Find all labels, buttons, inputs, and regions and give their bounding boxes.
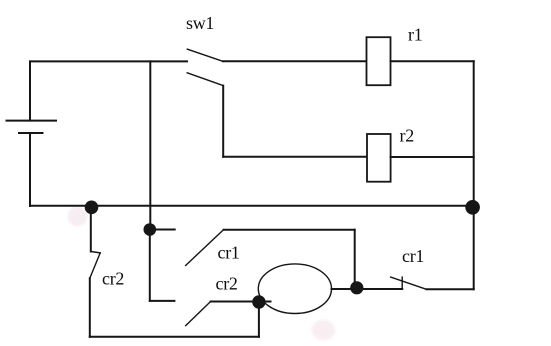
contact cr2 left tick	[91, 252, 100, 253]
switch sw1 blade 1	[187, 49, 223, 61]
wire bottom left row	[90, 336, 259, 338]
switch sw1 blade 2	[187, 73, 223, 86]
resistor r1	[367, 37, 391, 85]
wire r1 row	[223, 60, 367, 62]
node dot junction left	[85, 201, 99, 215]
contact cr1 right (NC) blade	[391, 277, 427, 289]
node dot motor left	[252, 295, 265, 308]
contact cr2 (NO) blade	[186, 302, 211, 326]
wire motor right	[332, 288, 403, 290]
wire sw1 pole2 down	[222, 86, 224, 157]
wire r1 to right bus	[391, 60, 474, 62]
svg-text:cr1: cr1	[218, 243, 240, 263]
wire bottom bus	[30, 205, 474, 207]
wire r2 to right bus	[391, 156, 474, 158]
contact cr2 left (NC) upper lead	[90, 207, 92, 251]
svg-text:r1: r1	[408, 25, 422, 45]
svg-text:cr2: cr2	[216, 274, 238, 294]
smudge blob left	[66, 205, 89, 228]
wire cr1 right to bus	[427, 288, 474, 290]
wire cr1 output	[224, 229, 355, 231]
fork bottom stub	[150, 300, 175, 302]
contact cr1 (NO) blade	[186, 230, 224, 266]
wire up to motor node	[258, 302, 260, 337]
node dot motor right	[350, 281, 363, 294]
wire r2 row left	[223, 156, 367, 158]
svg-text:cr1: cr1	[402, 246, 424, 266]
wire cr2 output to motor	[211, 301, 271, 303]
wire mid vertical	[149, 61, 151, 229]
battery B1	[7, 61, 57, 206]
svg-text:cr2: cr2	[102, 269, 124, 289]
contact cr1 right (NC) tick	[401, 277, 403, 289]
resistor r2	[367, 134, 391, 182]
fork top stub	[150, 229, 175, 231]
node dot junction right	[465, 200, 480, 215]
svg-text:r2: r2	[400, 126, 414, 146]
wire top left	[30, 60, 187, 62]
contact cr2 left lower lead	[89, 278, 91, 337]
motor M	[258, 264, 331, 314]
fork vertical	[149, 230, 151, 301]
smudge blob bottom middle	[310, 318, 338, 342]
wire cr1 branch down	[354, 230, 356, 288]
contact cr2 left blade	[90, 253, 100, 278]
node dot fork	[144, 223, 157, 236]
right bus vertical	[473, 61, 475, 289]
svg-text:sw1: sw1	[186, 13, 214, 33]
